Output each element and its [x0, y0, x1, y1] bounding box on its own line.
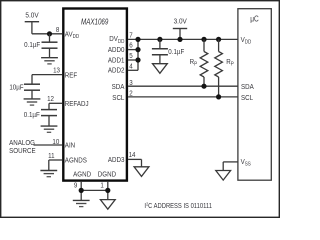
svg-text:DGND: DGND	[98, 171, 116, 179]
svg-text:7: 7	[129, 32, 133, 40]
svg-text:9: 9	[74, 182, 78, 190]
svg-text:12: 12	[47, 96, 54, 104]
svg-text:SDA: SDA	[112, 84, 125, 92]
svg-text:REF: REF	[65, 72, 77, 80]
svg-text:8: 8	[56, 27, 60, 35]
svg-text:SDA: SDA	[241, 84, 254, 92]
svg-text:0.1µF: 0.1µF	[24, 112, 40, 120]
svg-text:ADD0: ADD0	[108, 47, 125, 55]
svg-text:0.1µF: 0.1µF	[24, 41, 40, 49]
svg-text:1: 1	[100, 182, 104, 190]
svg-text:SOURCE: SOURCE	[9, 148, 36, 156]
svg-text:AIN: AIN	[65, 142, 75, 150]
svg-text:ADD2: ADD2	[108, 67, 125, 75]
svg-text:10: 10	[52, 139, 59, 147]
svg-text:AGNDS: AGNDS	[65, 157, 87, 165]
svg-text:5: 5	[129, 53, 133, 61]
svg-text:REFADJ: REFADJ	[65, 101, 89, 109]
svg-text:3: 3	[129, 80, 133, 88]
svg-text:MAX1069: MAX1069	[81, 17, 108, 27]
svg-text:10µF: 10µF	[9, 84, 23, 92]
svg-text:SCL: SCL	[241, 94, 253, 102]
svg-text:6: 6	[129, 42, 133, 50]
svg-text:3.0V: 3.0V	[174, 18, 188, 25]
svg-text:11: 11	[48, 152, 55, 160]
svg-text:5.0V: 5.0V	[25, 12, 39, 19]
svg-text:0.1µF: 0.1µF	[168, 48, 184, 56]
svg-text:I2C ADDRESS IS 0110111: I2C ADDRESS IS 0110111	[144, 201, 212, 210]
svg-text:μC: μC	[250, 14, 258, 24]
svg-text:ADD1: ADD1	[108, 57, 125, 65]
svg-text:ANALOG: ANALOG	[9, 140, 35, 148]
svg-text:4: 4	[129, 63, 133, 71]
svg-text:ADD3: ADD3	[108, 157, 125, 165]
svg-text:13: 13	[53, 67, 60, 75]
svg-text:2: 2	[129, 90, 133, 98]
svg-text:AGND: AGND	[73, 171, 91, 179]
svg-text:SCL: SCL	[112, 94, 124, 102]
svg-text:14: 14	[129, 152, 136, 160]
